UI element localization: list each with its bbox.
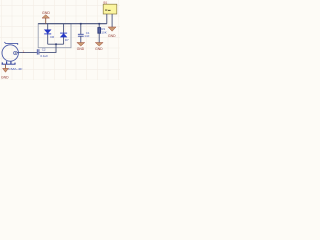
svg-text:GND: GND [95,47,103,51]
resistor R1 [98,27,107,34]
ground arrow (below yellow box) [108,27,116,38]
svg-text:GND: GND [1,75,9,79]
wire tap down-left to cap [39,44,56,52]
wire C1 branch upper [80,24,82,34]
wire yellow box left pin to rail [106,14,108,24]
ground arrow (below R1) [95,43,103,51]
svg-text:C2: C2 [42,47,46,51]
wire mic to cap [17,52,37,54]
wire yellow box right pin [111,14,113,27]
diode D7 (pointing up) [60,33,69,42]
svg-text:GND: GND [77,47,85,51]
microphone B1 circle [2,45,18,61]
mic inner contact circle [14,51,17,54]
wire R1 branch lower [98,33,100,42]
wire R1 branch upper [98,24,100,28]
node junction dot C1 [80,23,82,25]
node junction dot [55,43,57,45]
svg-text:CMA-4F: CMA-4F [8,67,23,71]
grid [0,0,120,80]
capacitor C1 [78,31,90,38]
node junction dot R1 [98,23,100,25]
svg-text:10K: 10K [101,31,106,35]
sheet background [0,0,120,80]
component body box (diode pair outline) [38,24,71,48]
wire bottom diode junction [48,43,64,45]
svg-text:0.1uF: 0.1uF [40,54,48,58]
ground arrow (below mic) [3,68,9,72]
diode D6 (pointing down) [44,30,54,39]
svg-text:B1: B1 [104,1,108,5]
wire C1 branch lower [80,36,82,42]
mic bottom comb [2,61,16,64]
ground GND (top, above rail) [42,11,50,24]
svg-text:D7: D7 [65,38,69,42]
capacitor C2 (series) [37,47,48,57]
mic top plate line [4,42,17,45]
svg-text:D6: D6 [50,35,54,39]
wire main rail [38,23,107,25]
ground arrow (below C1) [77,43,85,51]
svg-text:1nF: 1nF [84,34,89,38]
buzzer B2 (yellow box) [103,1,117,15]
mic ground stem [5,64,7,68]
svg-text:GND: GND [108,34,116,38]
svg-text:GND: GND [42,11,50,15]
wire left diode branch [47,24,49,45]
wire right diode branch [63,24,65,45]
